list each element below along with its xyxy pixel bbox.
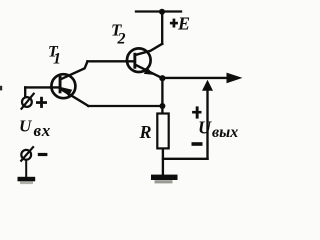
svg-text:U: U [19,117,32,136]
svg-text:U: U [198,118,212,138]
svg-text:вx: вx [34,121,51,140]
svg-text:R: R [139,122,152,142]
svg-text:E: E [177,13,190,33]
svg-text:2: 2 [117,31,126,48]
svg-text:вых: вых [212,124,238,141]
svg-text:1: 1 [53,51,61,68]
